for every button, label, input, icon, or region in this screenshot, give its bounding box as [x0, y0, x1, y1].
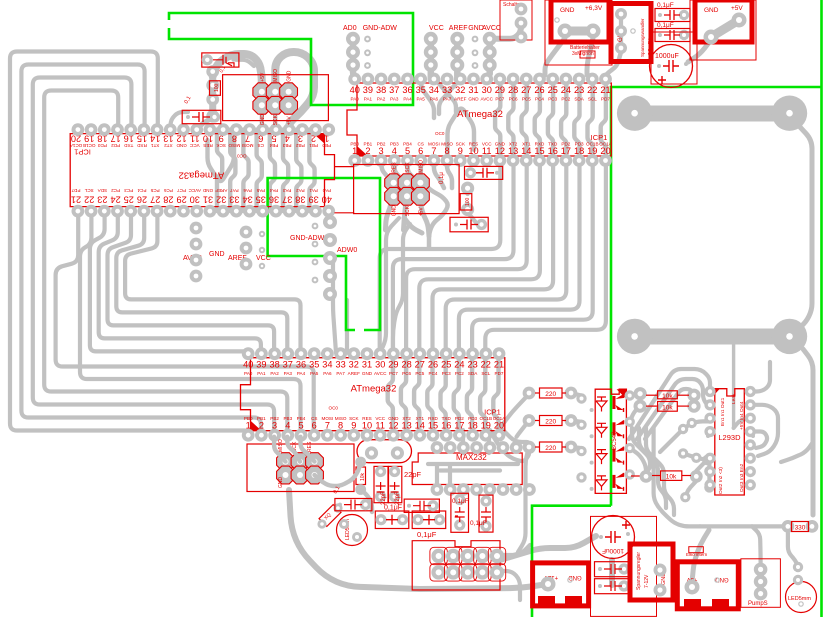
wire dumbbell trace top: [617, 96, 812, 331]
svg-text:40: 40: [322, 195, 332, 205]
svg-text:26: 26: [428, 360, 438, 370]
svg-text:0,1μF: 0,1μF: [470, 520, 487, 527]
svg-text:PA0: PA0: [244, 371, 253, 376]
svg-text:PA1: PA1: [364, 97, 373, 102]
svg-text:36: 36: [296, 360, 306, 370]
svg-text:37: 37: [282, 195, 292, 205]
header H2 outline: [354, 165, 460, 214]
svg-text:31: 31: [362, 360, 372, 370]
resistor 220 #3: [523, 441, 578, 454]
svg-text:ICP1: ICP1: [74, 148, 91, 157]
resistor 100k vertical near H2: [460, 194, 472, 210]
svg-text:PC4: PC4: [535, 97, 544, 102]
svg-text:SCK: SCK: [273, 114, 279, 125]
svg-text:MAX232: MAX232: [456, 453, 487, 462]
transistor Q3 symbol: [613, 443, 635, 465]
svg-text:L293D: L293D: [718, 433, 741, 442]
svg-text:Out2 In2 <3): Out2 In2 <3): [718, 467, 724, 494]
capacitor bottom module #1: [595, 562, 631, 577]
svg-text:OC0: OC0: [237, 154, 247, 159]
svg-text:28: 28: [401, 360, 411, 370]
svg-text:GND: GND: [287, 70, 293, 82]
svg-text:PA5: PA5: [256, 188, 265, 193]
svg-text:40: 40: [350, 85, 360, 95]
svg-text:PA6: PA6: [323, 371, 332, 376]
connector AVCC GND AREF VCC labels (IC1 bottom): [183, 222, 271, 283]
svg-text:GND: GND: [468, 97, 479, 102]
label Elko extern: [686, 547, 708, 557]
svg-text:25: 25: [124, 195, 134, 205]
connector AD0/GND-ADW pads: [343, 25, 397, 72]
svg-text:+5V: +5V: [287, 116, 293, 126]
wire L293 area: [490, 393, 646, 476]
resistor 330: [782, 520, 819, 533]
svg-text:31: 31: [203, 195, 213, 205]
svg-text:29: 29: [176, 195, 186, 205]
svg-text:PC7: PC7: [177, 188, 186, 193]
svg-text:33: 33: [442, 85, 452, 95]
wire thick H2 area: [382, 159, 479, 248]
svg-text:Out3 In3 En2: Out3 In3 En2: [739, 463, 745, 492]
capacitor 0,1uF bottom D: [384, 499, 439, 512]
capacitor 0,1uF bottom-left A: [333, 485, 372, 510]
capacitor 0,1uF vertical F: [470, 495, 493, 532]
svg-text:+5V: +5V: [260, 72, 266, 82]
svg-text:0,1μ: 0,1μ: [439, 172, 445, 184]
svg-text:29: 29: [495, 85, 505, 95]
svg-text:23: 23: [467, 360, 477, 370]
svg-text:37: 37: [389, 85, 399, 95]
svg-text:GND-ADW: GND-ADW: [290, 235, 325, 242]
resistor R100 vertical near H1: [210, 81, 221, 96]
module Schalter outline: [500, 0, 532, 43]
wire block A to IC2: [545, 38, 565, 75]
svg-text:PA4: PA4: [403, 97, 412, 102]
transistor Q2 diode: [576, 420, 607, 439]
svg-text:10k: 10k: [662, 405, 673, 412]
svg-text:RES: RES: [392, 162, 398, 173]
header H1 pads 3x2: [253, 83, 298, 115]
resistor 10k #2 (right): [646, 402, 689, 412]
svg-text:ICP1: ICP1: [591, 133, 608, 142]
svg-text:En1 In1 Out1: En1 In1 Out1: [720, 397, 726, 426]
svg-text:PA2: PA2: [270, 371, 279, 376]
capacitor C-0,1uF near H2: [439, 166, 503, 184]
wire bus IC1-to-IC3 staircase: [90, 211, 301, 353]
svg-text:PA4: PA4: [297, 371, 306, 376]
svg-text:GND: GND: [260, 114, 266, 126]
svg-text:SDA: SDA: [97, 188, 107, 193]
wire thick H1 area: [171, 52, 314, 130]
wire IC2 top connector columns: [353, 28, 521, 78]
capacitor 0,1uF vertical E: [451, 493, 469, 532]
capacitor 1000uF (bottom): [592, 516, 635, 559]
resistor 220 #1: [523, 387, 578, 400]
jumper S1 (top-left): [202, 53, 239, 74]
svg-text:AVCC: AVCC: [188, 188, 201, 193]
svg-text:39: 39: [256, 360, 266, 370]
svg-text:PC4: PC4: [429, 371, 438, 376]
wire ADW stubs: [333, 258, 347, 353]
svg-text:+5V In4 Out4: +5V In4 Out4: [739, 401, 745, 430]
capacitor 22pF #1: [374, 466, 388, 505]
svg-text:PumpS: PumpS: [748, 601, 768, 607]
svg-text:AREF: AREF: [348, 371, 360, 376]
capacitor 0,1uF (top right #1): [655, 2, 690, 22]
svg-text:23: 23: [574, 85, 584, 95]
IC IC1 pads: [72, 123, 336, 217]
svg-text:GND: GND: [704, 7, 719, 14]
svg-text:PC6: PC6: [163, 188, 172, 193]
wire IC3 interior vertical feedthroughs: [388, 353, 499, 437]
wire IC2 interior vertical feedthroughs: [495, 78, 606, 158]
svg-text:Leak: Leak: [731, 393, 737, 404]
IC L293D outline: [704, 386, 756, 495]
svg-text:38: 38: [269, 360, 279, 370]
svg-text:ATmega32: ATmega32: [457, 109, 503, 120]
svg-text:ICP1: ICP1: [484, 408, 501, 417]
capacitor C-0,1 near H1: [182, 95, 221, 123]
svg-text:1000uF: 1000uF: [602, 547, 624, 554]
resistor 220 #2: [523, 414, 578, 427]
svg-text:0,1μF: 0,1μF: [657, 2, 674, 9]
svg-text:32: 32: [455, 85, 465, 95]
svg-text:AVCC: AVCC: [480, 97, 493, 102]
svg-text:23: 23: [97, 195, 107, 205]
svg-text:10k: 10k: [662, 393, 673, 400]
svg-text:PC3: PC3: [442, 371, 451, 376]
resistor 10k vertical (bottom header): [355, 457, 366, 495]
svg-text:PC3: PC3: [548, 97, 557, 102]
wire IC1 interior vertical feedthroughs: [217, 130, 315, 211]
svg-text:SDA: SDA: [468, 371, 478, 376]
terminal block C (GND +5V): [690, 0, 756, 60]
svg-text:27: 27: [521, 85, 531, 95]
svg-text:Spannungswandler: Spannungswandler: [640, 18, 645, 57]
svg-text:21: 21: [600, 85, 610, 95]
svg-text:SCL: SCL: [84, 188, 93, 193]
svg-text:22: 22: [84, 195, 94, 205]
IC IC3 pads: [242, 347, 506, 441]
svg-text:Elko intern: Elko intern: [686, 552, 708, 557]
module outline link IC1-H2: [335, 166, 355, 168]
IC IC2 pads: [348, 73, 612, 167]
svg-text:+6,3V: +6,3V: [585, 5, 603, 12]
svg-text:22pF: 22pF: [395, 491, 401, 505]
svg-text:32: 32: [349, 360, 359, 370]
board outline top module (green): [169, 13, 413, 105]
terminal block F (+5V GND): [677, 562, 738, 609]
svg-text:100: 100: [214, 83, 220, 92]
svg-text:PA2: PA2: [377, 97, 386, 102]
svg-text:PA2: PA2: [296, 188, 305, 193]
svg-text:34: 34: [322, 360, 332, 370]
svg-text:VCC: VCC: [429, 25, 444, 32]
svg-text:GND: GND: [392, 205, 398, 217]
svg-text:PC7: PC7: [389, 371, 398, 376]
svg-text:35: 35: [309, 360, 319, 370]
resistor 10k #3 (mid): [631, 470, 703, 483]
svg-text:SCK: SCK: [405, 205, 411, 216]
board outline ADW module (green): [268, 178, 380, 330]
svg-text:PA3: PA3: [283, 188, 292, 193]
svg-text:PA5: PA5: [417, 97, 426, 102]
svg-text:24: 24: [561, 85, 571, 95]
svg-text:PC7: PC7: [495, 97, 504, 102]
svg-text:PC6: PC6: [402, 371, 411, 376]
svg-text:1000uF: 1000uF: [655, 53, 679, 60]
header H1 labels: [260, 69, 293, 125]
svg-text:PC5: PC5: [415, 371, 424, 376]
board outline bottom power module (green): [532, 506, 611, 617]
svg-text:29: 29: [388, 360, 398, 370]
svg-text:PD7: PD7: [601, 97, 610, 102]
svg-text:33: 33: [335, 360, 345, 370]
capacitor 0,1uF (top right #2): [655, 22, 690, 42]
svg-text:32: 32: [216, 195, 226, 205]
svg-text:36: 36: [269, 195, 279, 205]
svg-text:40: 40: [243, 360, 253, 370]
IC IC1 ATmega32 DIP-40 outline: [69, 134, 335, 207]
terminal block D (+12V GND): [533, 563, 589, 606]
svg-text:PA6: PA6: [243, 188, 252, 193]
svg-text:VCC: VCC: [256, 255, 271, 262]
svg-text:26: 26: [534, 85, 544, 95]
resistor 10k #1 (right): [646, 391, 689, 400]
wire IC1 interior lambda trace: [208, 137, 235, 181]
wire bus IC2-to-IC3 staircase: [380, 158, 606, 353]
svg-text:PA4: PA4: [269, 188, 278, 193]
svg-text:7-12V: 7-12V: [644, 574, 650, 588]
svg-text:10k: 10k: [666, 474, 677, 481]
capacitor 22pF #2: [389, 466, 422, 505]
module bottom power outline: [591, 516, 657, 616]
wire H3 interior stubs: [274, 437, 372, 512]
svg-text:38: 38: [376, 85, 386, 95]
svg-text:Spannungsregler: Spannungsregler: [636, 552, 642, 590]
svg-text:PC2: PC2: [455, 371, 464, 376]
svg-text:GND: GND: [715, 576, 729, 582]
svg-text:PA7: PA7: [230, 188, 239, 193]
wire MAX232 blob: [357, 430, 529, 552]
wire bottom power traces: [289, 490, 612, 589]
svg-text:35: 35: [416, 85, 426, 95]
wire snake traces right board: [632, 428, 788, 582]
svg-text:25: 25: [441, 360, 451, 370]
header H1 outline: [223, 75, 329, 121]
svg-text:SCL: SCL: [481, 371, 490, 376]
svg-text:0,1μF: 0,1μF: [452, 498, 469, 505]
transistor Q2 symbol: [613, 417, 635, 439]
svg-text:PC2: PC2: [111, 188, 120, 193]
IC IC3 ATmega32 DIP-40 outline: [241, 358, 507, 431]
svg-text:PA7: PA7: [443, 97, 452, 102]
svg-text:39: 39: [308, 195, 318, 205]
transistor Q3 diode: [576, 446, 607, 465]
wire bus left nested loops: [10, 52, 314, 437]
LED 5mm (bottom right): [786, 562, 817, 613]
wire boost module internal: [619, 14, 623, 48]
svg-text:PC6: PC6: [509, 97, 518, 102]
wire terminal block A internal: [565, 27, 593, 36]
header H2 labels: [392, 160, 425, 216]
connector GND-ADW / ADW0 (module B): [290, 215, 357, 301]
svg-text:0,1μF: 0,1μF: [384, 505, 402, 512]
svg-text:PA1: PA1: [257, 371, 266, 376]
svg-text:26: 26: [137, 195, 147, 205]
svg-text:PC4: PC4: [137, 188, 146, 193]
wire boost to IC2: [606, 52, 621, 75]
svg-text:AD0: AD0: [343, 25, 357, 32]
svg-text:MISO: MISO: [418, 160, 424, 173]
connector VCC/AREF/GND/AVCC pads: [424, 25, 501, 72]
svg-text:0,1μF: 0,1μF: [657, 22, 674, 29]
header K2 5x2 outline: [412, 541, 505, 590]
capacitor electrolytic bottom B: [375, 511, 409, 529]
svg-text:35: 35: [256, 195, 266, 205]
svg-text:AREF: AREF: [449, 25, 468, 32]
transistor array outline: [595, 389, 626, 493]
svg-text:PA0: PA0: [351, 97, 360, 102]
svg-text:+5V: +5V: [418, 207, 424, 217]
svg-text:LED5mm: LED5mm: [788, 596, 811, 602]
svg-text:21: 21: [71, 195, 81, 205]
header H2 pads 3x2: [384, 174, 429, 206]
svg-text:31: 31: [468, 85, 478, 95]
wire mountain traces to L293: [629, 362, 813, 462]
svg-text:AREF: AREF: [454, 97, 466, 102]
svg-text:22: 22: [587, 85, 597, 95]
via pads L293 bottom-left cluster: [634, 387, 715, 502]
connector Pumps: [741, 559, 781, 608]
svg-text:24: 24: [454, 360, 464, 370]
svg-text:ATmega32: ATmega32: [351, 384, 397, 395]
svg-text:AREF: AREF: [215, 188, 227, 193]
transistor Q4 symbol: [613, 469, 635, 491]
svg-text:MISO: MISO: [273, 69, 279, 82]
svg-text:PC3: PC3: [124, 188, 133, 193]
svg-text:39: 39: [363, 85, 373, 95]
capacitor C near H2 lower: [450, 217, 488, 232]
transistor Q4 diode: [576, 472, 607, 491]
svg-text:PA7: PA7: [336, 371, 345, 376]
crystal XQ2 rotated: [317, 503, 342, 528]
wire dumbbell trace bottom: [617, 319, 813, 566]
svg-text:PA0: PA0: [322, 188, 331, 193]
board outline right module (green): [611, 0, 822, 617]
transistor Q1 symbol: [613, 390, 635, 412]
capacitor 1000uF (top right): [650, 32, 698, 88]
svg-text:21: 21: [494, 360, 504, 370]
svg-text:30: 30: [190, 195, 200, 205]
svg-text:34: 34: [429, 85, 439, 95]
svg-text:ADW0: ADW0: [337, 247, 357, 254]
svg-text:220: 220: [545, 445, 556, 452]
svg-text:34: 34: [242, 195, 252, 205]
svg-text:28: 28: [508, 85, 518, 95]
svg-text:220: 220: [545, 391, 556, 398]
svg-text:GND: GND: [278, 477, 284, 489]
svg-text:36: 36: [402, 85, 412, 95]
svg-text:220: 220: [545, 419, 556, 426]
wire header K2 traces: [497, 545, 530, 600]
svg-text:38: 38: [295, 195, 305, 205]
svg-text:RES: RES: [307, 441, 313, 452]
IC IC2 ATmega32 DIP-40 outline: [347, 83, 613, 156]
svg-text:GND-ADW: GND-ADW: [363, 25, 398, 32]
svg-text:22pF: 22pF: [381, 491, 387, 505]
LED5mm bottom-left: [337, 515, 368, 546]
svg-text:22pF: 22pF: [404, 470, 422, 479]
module boost converter (thick block B): [611, 4, 652, 62]
svg-text:SCL: SCL: [588, 97, 597, 102]
svg-text:SDA: SDA: [574, 97, 584, 102]
svg-text:10k: 10k: [360, 472, 366, 481]
svg-text:0,1μF: 0,1μF: [417, 530, 437, 539]
module voltage regulator (thick block E): [630, 544, 673, 600]
svg-text:GND: GND: [568, 574, 582, 580]
wire block C to cap1000uF: [688, 40, 711, 62]
terminal block A (GND +6,3V): [545, 0, 612, 65]
svg-text:PA3: PA3: [390, 97, 399, 102]
svg-text:22: 22: [481, 360, 491, 370]
svg-text:25: 25: [548, 85, 558, 95]
svg-text:33: 33: [229, 195, 239, 205]
svg-text:GND: GND: [202, 188, 213, 193]
svg-text:330: 330: [795, 525, 806, 532]
svg-text:PA3: PA3: [284, 371, 293, 376]
svg-text:PA6: PA6: [430, 97, 439, 102]
capacitor electrolytic bottom C: [412, 511, 446, 539]
svg-text:37: 37: [283, 360, 293, 370]
svg-text:GND: GND: [560, 7, 575, 14]
wire IC2 interior crossing traces: [421, 78, 474, 154]
svg-text:3xMignon: 3xMignon: [572, 51, 594, 57]
svg-text:PA1: PA1: [309, 188, 318, 193]
wire terminal block C internal: [711, 20, 739, 37]
IC MAX232 outline: [412, 441, 536, 496]
svg-text:AVCC: AVCC: [482, 25, 501, 32]
svg-text:PC2: PC2: [561, 97, 570, 102]
svg-text:SCK: SCK: [405, 162, 411, 173]
svg-text:+5V: +5V: [731, 5, 743, 12]
svg-text:MISO: MISO: [278, 439, 284, 452]
svg-text:PA5: PA5: [310, 371, 319, 376]
svg-text:27: 27: [415, 360, 425, 370]
svg-text:PD7: PD7: [495, 371, 504, 376]
svg-text:PC5: PC5: [150, 188, 159, 193]
svg-text:24: 24: [110, 195, 120, 205]
transistor Q1 diode: [576, 393, 607, 412]
svg-text:100: 100: [465, 197, 471, 206]
capacitor bottom module #2: [595, 579, 631, 594]
svg-text:PC5: PC5: [522, 97, 531, 102]
svg-text:GND: GND: [362, 371, 373, 376]
svg-text:ATmega32: ATmega32: [179, 170, 225, 181]
svg-text:OC0: OC0: [435, 131, 445, 136]
svg-text:30: 30: [375, 360, 385, 370]
svg-text:OC0: OC0: [329, 406, 339, 411]
svg-text:27: 27: [150, 195, 160, 205]
svg-text:PD7: PD7: [71, 188, 80, 193]
header H3 outline (bottom): [247, 439, 354, 491]
svg-text:AVCC: AVCC: [374, 371, 387, 376]
svg-text:GND: GND: [209, 251, 225, 258]
svg-text:28: 28: [163, 195, 173, 205]
svg-text:30: 30: [482, 85, 492, 95]
